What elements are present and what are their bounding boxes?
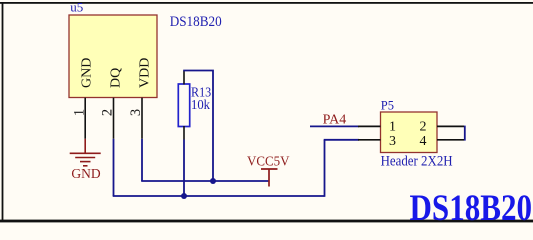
R13 bottom pin stub [183, 126, 185, 140]
svg-text:4: 4 [420, 134, 427, 149]
svg-text:1: 1 [71, 109, 87, 116]
sheet left border [2, 2, 4, 222]
P5 pin 4 stub [437, 139, 464, 141]
svg-text:GND: GND [80, 58, 95, 88]
svg-text:DQ: DQ [109, 68, 124, 88]
svg-text:VCC5V: VCC5V [247, 155, 290, 170]
P5 pin 2 stub [437, 125, 464, 127]
svg-text:P5: P5 [381, 98, 394, 112]
sheet top border [0, 2, 533, 4]
svg-text:2: 2 [100, 109, 116, 116]
power VCC5V [261, 169, 278, 187]
svg-text:2: 2 [420, 120, 427, 135]
resistor R13 [178, 84, 189, 127]
sheet bottom border [0, 220, 533, 223]
IC U5 body [69, 15, 157, 98]
svg-text:10k: 10k [191, 98, 210, 113]
P5 pin 3 stub [358, 139, 381, 141]
svg-text:Header 2X2H: Header 2X2H [381, 153, 453, 169]
wire DQ up to P5 [324, 140, 326, 197]
svg-text:3: 3 [389, 134, 396, 149]
U5 pin 3 (VDD) [141, 98, 143, 139]
wire PA4 [310, 125, 359, 127]
wire P5 right loop [464, 126, 466, 141]
svg-text:PA4: PA4 [323, 112, 347, 127]
wire R13 top loop to VCC [183, 71, 213, 182]
svg-text:VDD: VDD [138, 58, 153, 88]
svg-text:GND: GND [71, 166, 100, 181]
U5 pin 2 (DQ) [113, 98, 115, 139]
svg-text:DS18B20: DS18B20 [170, 14, 222, 30]
junction R13/VCC [210, 178, 216, 184]
svg-text:1: 1 [389, 120, 396, 135]
svg-text:DS18B20: DS18B20 [410, 188, 533, 227]
wire VDD vertical [141, 139, 143, 181]
svg-text:3: 3 [128, 109, 144, 116]
svg-text:u5: u5 [70, 0, 83, 15]
ground [70, 139, 101, 166]
connector P5 body [381, 112, 438, 153]
wire DQ bottom horizontal [113, 195, 325, 197]
R13 top pin stub [183, 71, 185, 85]
wire R13 bottom to DQ [183, 140, 185, 197]
wire DQ to P5 pin3 [324, 139, 359, 141]
wire VCC horizontal [141, 180, 269, 182]
junction R13/DQ [181, 193, 187, 199]
U5 pin 1 (GND) [84, 98, 86, 139]
P5 pin 1 stub [358, 125, 381, 127]
wire DQ vertical [113, 139, 115, 196]
